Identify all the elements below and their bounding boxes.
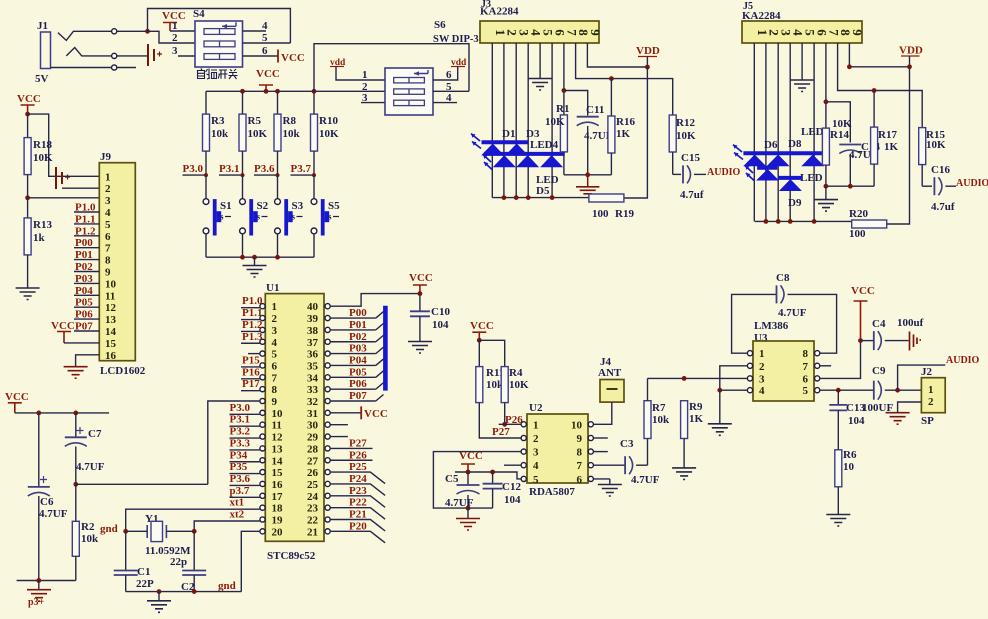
wire VCC to S4 pin 1 xyxy=(170,30,195,32)
wire U2 pin 5 to C5 C12 rail xyxy=(455,472,521,479)
wire C5 C12 bottom rail xyxy=(468,507,493,509)
svg-text:VCC: VCC xyxy=(17,93,41,105)
capacitor C15 4.7uf xyxy=(673,152,706,201)
junction C5 top xyxy=(466,470,471,475)
resistor R11 10k xyxy=(476,340,524,438)
svg-text:C6: C6 xyxy=(40,496,54,508)
ground at U2 pin 6 xyxy=(598,479,622,496)
svg-text:R10: R10 xyxy=(319,115,338,127)
svg-text:s: s xyxy=(328,212,332,222)
svg-text:1K: 1K xyxy=(689,413,704,425)
svg-text:100: 100 xyxy=(849,228,866,240)
svg-text:C15: C15 xyxy=(681,152,700,164)
bus entry P04 xyxy=(376,359,384,366)
wire U2 pin 4 stub xyxy=(504,464,521,466)
net label P34 at U1 pin 14 xyxy=(230,449,260,462)
net label P3.6 xyxy=(254,163,280,177)
svg-text:P24: P24 xyxy=(349,473,367,485)
wire R17 top xyxy=(873,91,875,128)
svg-text:AUDIO: AUDIO xyxy=(707,167,741,178)
wire J3 pin 1 down to LED row xyxy=(491,43,493,198)
svg-text:7: 7 xyxy=(105,243,111,255)
connector J3 KA2284 labels xyxy=(480,0,519,18)
svg-text:10k: 10k xyxy=(211,128,229,140)
wire J3 pin 6 down through LED D5 xyxy=(551,43,553,198)
S4 pin numbers 1 2 3 xyxy=(172,20,178,57)
svg-text:23: 23 xyxy=(307,503,319,515)
capacitor C1 22P xyxy=(114,531,154,591)
wire pin7 node to C14 xyxy=(826,102,850,143)
U3 right pin circles xyxy=(815,351,820,393)
wire pin7 node to C11 xyxy=(564,91,588,116)
svg-text:19: 19 xyxy=(272,515,284,527)
svg-text:26: 26 xyxy=(307,467,319,479)
wire S4 pin 4 stub xyxy=(243,30,267,32)
svg-text:1: 1 xyxy=(928,384,934,396)
wire U2 pin 3 loop xyxy=(433,452,521,509)
svg-text:SP: SP xyxy=(921,415,934,427)
svg-text:P3.6: P3.6 xyxy=(230,473,251,485)
svg-text:P3.3: P3.3 xyxy=(230,437,251,449)
U1 pin numbers left 1-20 xyxy=(272,301,284,538)
svg-text:104: 104 xyxy=(504,494,521,506)
junction R11 top xyxy=(477,338,482,343)
svg-text:3: 3 xyxy=(105,195,111,207)
U3 left pin circles xyxy=(747,351,752,393)
svg-text:P3.2: P3.2 xyxy=(230,426,251,438)
wire U2 pin 7 to C3 xyxy=(593,464,625,466)
svg-text:R14: R14 xyxy=(830,129,849,141)
svg-text:RDA5807: RDA5807 xyxy=(529,486,575,498)
power VCC at S4 pin 6 xyxy=(278,50,305,65)
power vdd right of S6 xyxy=(433,58,467,80)
svg-text:D1: D1 xyxy=(502,128,515,140)
svg-text:29: 29 xyxy=(307,432,319,444)
svg-text:P04: P04 xyxy=(349,354,367,366)
svg-text:7: 7 xyxy=(577,460,583,472)
svg-text:P26: P26 xyxy=(349,449,367,461)
pushbutton S5 xyxy=(311,175,340,257)
svg-text:3: 3 xyxy=(533,447,539,459)
wire U2 pin 8 stub xyxy=(593,451,607,453)
LED D5 xyxy=(540,155,563,167)
svg-text:AUDIO: AUDIO xyxy=(956,178,988,189)
svg-text:5: 5 xyxy=(105,219,111,231)
power VCC at S4 pin 1 xyxy=(162,10,186,31)
ground below C10 xyxy=(408,342,432,354)
junction VDD node J5 xyxy=(907,64,912,69)
U3 pin numbers right 8-5 xyxy=(803,348,809,397)
pushbutton S1 xyxy=(203,175,232,257)
J1 pin 3 contact xyxy=(51,65,136,70)
svg-text:5: 5 xyxy=(262,32,268,44)
LED D2 xyxy=(493,155,516,167)
ground below U3 pin 2 4 xyxy=(708,424,732,436)
junction bus at R10 xyxy=(312,89,317,94)
wire node to S4 pin 2 xyxy=(148,31,196,43)
J9 pin numbers 1-16 xyxy=(105,171,117,361)
svg-text:15: 15 xyxy=(105,338,117,350)
svg-text:R7: R7 xyxy=(652,402,666,414)
net label P15 at U1 pin 6 xyxy=(241,354,260,367)
power VCC bottom left xyxy=(5,391,29,413)
svg-text:104: 104 xyxy=(848,415,865,427)
switch S6 DIP body xyxy=(385,68,433,115)
svg-text:10K: 10K xyxy=(676,130,696,142)
svg-text:P3.6: P3.6 xyxy=(254,163,275,175)
resistor R10 10K xyxy=(311,91,340,175)
wire J5 pin 1 down xyxy=(753,43,755,221)
svg-text:R18: R18 xyxy=(33,139,52,151)
svg-text:C1: C1 xyxy=(137,566,150,578)
bus entry P01 xyxy=(376,323,384,330)
svg-text:8: 8 xyxy=(577,447,583,459)
svg-text:SW DIP-3: SW DIP-3 xyxy=(433,34,479,45)
junction bottom at S3 xyxy=(275,255,280,260)
svg-text:15: 15 xyxy=(272,467,284,479)
svg-text:VCC: VCC xyxy=(5,391,29,403)
resistor R13 1k xyxy=(24,198,52,288)
svg-text:38: 38 xyxy=(307,325,319,337)
wire J5 pin 4 down xyxy=(789,43,791,221)
svg-text:C8: C8 xyxy=(776,272,790,284)
net label P16 at U1 pin 7 xyxy=(241,366,260,379)
wire U1 pin 9 from C7 node xyxy=(208,401,260,484)
svg-text:1: 1 xyxy=(759,348,765,360)
ground at J3 pin 5 xyxy=(528,43,552,90)
svg-text:4.7UF: 4.7UF xyxy=(631,474,660,486)
svg-text:8: 8 xyxy=(803,348,809,360)
junction bus at R8 xyxy=(275,89,280,94)
wire xt2 run to crystal xyxy=(194,521,229,531)
connector J4 ANT xyxy=(598,356,624,402)
connector J1 5V power jack xyxy=(35,20,51,85)
J3 pin numbers 1-9 rotated xyxy=(493,29,603,36)
resistor R15 10K xyxy=(919,128,946,187)
svg-text:1k: 1k xyxy=(33,232,46,244)
J1 pin 2 contact xyxy=(66,48,116,59)
svg-text:4.7uf: 4.7uf xyxy=(931,201,955,213)
svg-text:R16: R16 xyxy=(616,116,635,128)
svg-text:R6: R6 xyxy=(843,449,857,461)
wire U1 pin 5 stub xyxy=(248,353,260,355)
svg-text:R13: R13 xyxy=(33,219,52,231)
svg-text:32: 32 xyxy=(307,396,319,408)
svg-text:P3.1: P3.1 xyxy=(219,163,239,175)
wire U3 pin 6 to VCC node xyxy=(820,341,861,379)
wire buttons common bottom xyxy=(206,256,314,258)
svg-text:J9: J9 xyxy=(100,151,112,163)
J1 pin 1 contact xyxy=(58,29,117,41)
resistor R3 10k xyxy=(203,91,230,175)
svg-text:C4: C4 xyxy=(872,318,886,330)
junction LED bottom pin4 xyxy=(526,195,531,200)
svg-text:VCC: VCC xyxy=(281,52,305,64)
svg-text:16: 16 xyxy=(105,350,117,362)
svg-text:3: 3 xyxy=(759,373,765,385)
net label P35 at U1 pin 15 xyxy=(230,461,260,474)
svg-text:3: 3 xyxy=(272,325,278,337)
svg-text:14: 14 xyxy=(105,326,117,338)
net label P26 at U1 pin 27 xyxy=(330,449,372,461)
junction bottom at gnd stem xyxy=(252,255,257,260)
capacitor C4 100uf xyxy=(861,317,924,350)
svg-text:2: 2 xyxy=(759,361,765,373)
LED emission arrows J5 xyxy=(733,145,754,181)
net label P02 at U1 pin 37 xyxy=(330,331,376,343)
svg-text:P20: P20 xyxy=(349,520,367,532)
junction LED bottom pin3 xyxy=(514,195,519,200)
svg-text:P27: P27 xyxy=(492,426,510,438)
wire VDD node down to R19 right xyxy=(624,67,647,198)
svg-text:100UF: 100UF xyxy=(862,402,893,414)
battery symbol after C4 xyxy=(910,332,922,351)
svg-text:22p: 22p xyxy=(170,556,187,568)
svg-text:LM386: LM386 xyxy=(754,320,789,332)
resistor R18 10K xyxy=(24,114,53,198)
svg-text:24: 24 xyxy=(307,491,319,503)
svg-text:34: 34 xyxy=(307,372,319,384)
svg-text:4.7UF: 4.7UF xyxy=(39,508,68,520)
svg-text:10K: 10K xyxy=(926,139,946,151)
junction J5 LED bottom pin4 xyxy=(788,219,793,224)
svg-text:9: 9 xyxy=(588,29,603,36)
wire R16 top xyxy=(610,79,612,116)
net label P26 xyxy=(499,414,524,426)
wire J5 pin 6 down through LED xyxy=(813,43,815,221)
svg-text:4: 4 xyxy=(759,385,765,397)
svg-text:37: 37 xyxy=(307,337,319,349)
svg-text:1: 1 xyxy=(362,69,368,81)
svg-text:9: 9 xyxy=(272,396,278,408)
svg-text:10k: 10k xyxy=(652,414,670,426)
ground below buttons xyxy=(243,257,267,277)
net label P01 at J9 pin 8 xyxy=(74,249,99,261)
svg-text:P3.7: P3.7 xyxy=(291,163,312,175)
svg-text:P21: P21 xyxy=(349,509,367,521)
connector J5 KA2284 labels xyxy=(742,1,781,22)
wire U1 pin 40 to VCC C10 xyxy=(330,294,420,307)
svg-text:5: 5 xyxy=(533,474,539,486)
svg-text:21: 21 xyxy=(307,526,318,538)
svg-text:10: 10 xyxy=(105,278,117,290)
ground below C5 xyxy=(456,508,480,530)
svg-text:S4: S4 xyxy=(193,8,205,20)
net label P3.3 at U1 pin 13 xyxy=(230,437,260,450)
power VCC above C4 xyxy=(851,285,875,341)
svg-text:P3.0: P3.0 xyxy=(183,163,204,175)
svg-text:P3.0: P3.0 xyxy=(230,402,251,414)
wire J3 pin 8 to R12 rail xyxy=(576,43,673,115)
svg-text:6: 6 xyxy=(272,360,278,372)
svg-text:VDD: VDD xyxy=(636,45,660,57)
wire S6 pin 3 stub xyxy=(361,102,385,104)
S4 pin numbers 4 5 6 xyxy=(262,20,268,57)
svg-text:C16: C16 xyxy=(931,164,950,176)
junction LED bottom pin6 xyxy=(550,195,555,200)
svg-text:R17: R17 xyxy=(878,129,897,141)
svg-text:p3.7: p3.7 xyxy=(230,485,250,497)
junction R4 bottom P26 xyxy=(502,422,507,427)
wire C7 node to U1 pin 9 riser xyxy=(76,483,208,485)
U2 right pin circles xyxy=(588,422,593,482)
junction Y1 left xyxy=(123,529,128,534)
junction R18/R13 node to J9 pin3 xyxy=(25,195,30,200)
LED D4 xyxy=(516,155,539,167)
svg-text:KA2284: KA2284 xyxy=(480,6,519,18)
svg-text:1: 1 xyxy=(105,171,111,183)
net label P00 at J9 pin 7 xyxy=(74,237,99,249)
wire J5 pin 2 down xyxy=(765,43,767,221)
LED D9 xyxy=(778,178,802,191)
svg-text:100: 100 xyxy=(592,208,609,220)
svg-text:C11: C11 xyxy=(586,104,604,116)
svg-text:2: 2 xyxy=(533,433,539,445)
svg-text:S2: S2 xyxy=(257,200,269,212)
svg-text:P00: P00 xyxy=(349,307,367,319)
LED row2 cathode bar J3 xyxy=(484,152,565,156)
net label P03 at U1 pin 36 xyxy=(330,343,376,355)
svg-text:12: 12 xyxy=(272,432,284,444)
ground at J2 pin 2 xyxy=(886,413,910,425)
svg-text:100uf: 100uf xyxy=(897,317,924,329)
svg-text:25: 25 xyxy=(307,479,319,491)
svg-text:10K: 10K xyxy=(319,128,339,140)
net label P22 at U1 pin 23 xyxy=(330,497,385,520)
wire U1 pin 29 stub xyxy=(330,436,348,438)
resistor R5 10K xyxy=(239,91,268,175)
S6 pin numbers 1 2 3 xyxy=(362,69,368,104)
LED D6 xyxy=(743,155,766,167)
svg-text:xt1: xt1 xyxy=(230,497,245,509)
resistor R1 10K xyxy=(545,103,569,175)
wire J3 pin 7 down to R1 xyxy=(563,43,565,115)
capacitor C14 4.7UF xyxy=(839,141,880,186)
svg-text:11: 11 xyxy=(105,290,115,302)
net label P3.0 xyxy=(183,163,209,177)
net label xt1 at U1 pin 18 xyxy=(230,497,260,510)
svg-text:R5: R5 xyxy=(248,115,262,127)
wire U3 pin 7 stub xyxy=(820,365,831,367)
svg-text:10k: 10k xyxy=(283,128,301,140)
wire R14 C14 R17 bottom rail xyxy=(826,185,874,187)
resistor R19 100 xyxy=(589,194,635,220)
net label xt2 at U1 pin 19 xyxy=(230,509,260,522)
svg-text:ANT: ANT xyxy=(598,367,622,379)
svg-text:13: 13 xyxy=(272,443,284,455)
U1 right pin circles xyxy=(325,304,330,534)
svg-text:5V: 5V xyxy=(35,73,49,85)
wire R1 C11 R16 bottom rail xyxy=(564,174,612,176)
svg-text:1K: 1K xyxy=(884,141,899,153)
svg-text:J2: J2 xyxy=(921,366,933,378)
junction R9 top xyxy=(682,376,687,381)
svg-text:C12: C12 xyxy=(502,481,521,493)
net label P1.0 at U1 pin 1 xyxy=(241,295,263,308)
svg-text:10: 10 xyxy=(843,461,855,473)
svg-text:40: 40 xyxy=(307,301,319,313)
ground below R14 rail xyxy=(814,186,838,211)
connector J9 LCD header body xyxy=(99,151,135,361)
net label P3.1 at U1 pin 11 xyxy=(230,414,260,427)
wire J5 LED bottom common xyxy=(755,220,852,222)
LED row1 cathode bar J5 xyxy=(743,151,825,155)
svg-text:4: 4 xyxy=(262,20,268,32)
junction J3 pin7/C11 xyxy=(562,88,567,93)
wire top loop from node over S4 to pin 5 xyxy=(148,9,291,44)
wire S4 pin 5 to top loop xyxy=(243,42,291,44)
net label P24 at U1 pin 25 xyxy=(330,473,385,496)
pushbutton S2 xyxy=(240,175,269,257)
wire VDD node down to R20 right xyxy=(887,67,910,224)
LED D8 xyxy=(767,155,790,167)
capacitor C2 xyxy=(181,531,206,593)
net label P3.6 at U1 pin 16 xyxy=(230,473,260,486)
svg-text:R20: R20 xyxy=(849,208,868,220)
ground below R6 xyxy=(826,515,850,527)
power vdd left of S6 xyxy=(330,58,385,80)
resistor R2 10k xyxy=(72,484,99,580)
svg-text:R1: R1 xyxy=(556,103,569,115)
svg-text:P1.0: P1.0 xyxy=(242,295,263,307)
wire J5 pin 7 down to R14 xyxy=(825,43,827,128)
bus entry P02 xyxy=(376,335,384,342)
svg-text:P25: P25 xyxy=(349,461,367,473)
bus P0 blue xyxy=(383,306,388,391)
wire crystal ground rail xyxy=(126,591,242,593)
svg-text:12: 12 xyxy=(105,302,117,314)
S6 pin numbers 6 5 4 xyxy=(446,69,452,104)
net label P04 at J9 pin 11 xyxy=(74,285,99,297)
svg-text:R2: R2 xyxy=(81,521,95,533)
svg-text:6: 6 xyxy=(262,45,268,57)
capacitor C3 4.7UF xyxy=(620,438,660,486)
svg-text:22P: 22P xyxy=(136,578,154,590)
wire J5 pin 3 down xyxy=(777,43,779,221)
wire node to J9 pin 3 xyxy=(28,197,100,199)
bus entry P00 xyxy=(376,312,384,319)
svg-text:P1.3: P1.3 xyxy=(242,331,263,343)
power VCC above resistor bank xyxy=(256,68,280,91)
svg-text:2: 2 xyxy=(172,32,178,44)
capacitor C13 104 100UF xyxy=(829,390,893,450)
svg-text:13: 13 xyxy=(105,314,117,326)
junction AUDIO branch xyxy=(895,388,900,393)
resistor R6 10 xyxy=(835,449,857,515)
wire J3 LED bottom common xyxy=(492,197,589,199)
S4 slot 3 xyxy=(204,54,235,60)
svg-text:P1.2: P1.2 xyxy=(242,319,263,331)
svg-text:4.7UF: 4.7UF xyxy=(778,307,807,319)
svg-text:U1: U1 xyxy=(266,282,279,294)
resistor R12 10K xyxy=(669,115,696,174)
LED emission arrows J3 xyxy=(471,134,492,170)
junction C11 bottom xyxy=(585,172,590,177)
svg-text:P05: P05 xyxy=(349,366,367,378)
capacitor C16 4.7uf xyxy=(922,164,956,213)
svg-text:6: 6 xyxy=(577,474,583,486)
net label P3.7 xyxy=(291,163,317,177)
resistor R14 10K xyxy=(822,118,852,186)
bus entry P07 xyxy=(376,395,384,402)
svg-text:6: 6 xyxy=(105,231,111,243)
wire xt1 run to crystal xyxy=(126,509,230,531)
ground below R9 xyxy=(672,468,696,480)
connector J2 SP body xyxy=(921,366,945,427)
svg-text:P15: P15 xyxy=(242,354,260,366)
junction R16 top on pin8 rail xyxy=(609,76,614,81)
resistor R8 10k xyxy=(274,91,301,175)
